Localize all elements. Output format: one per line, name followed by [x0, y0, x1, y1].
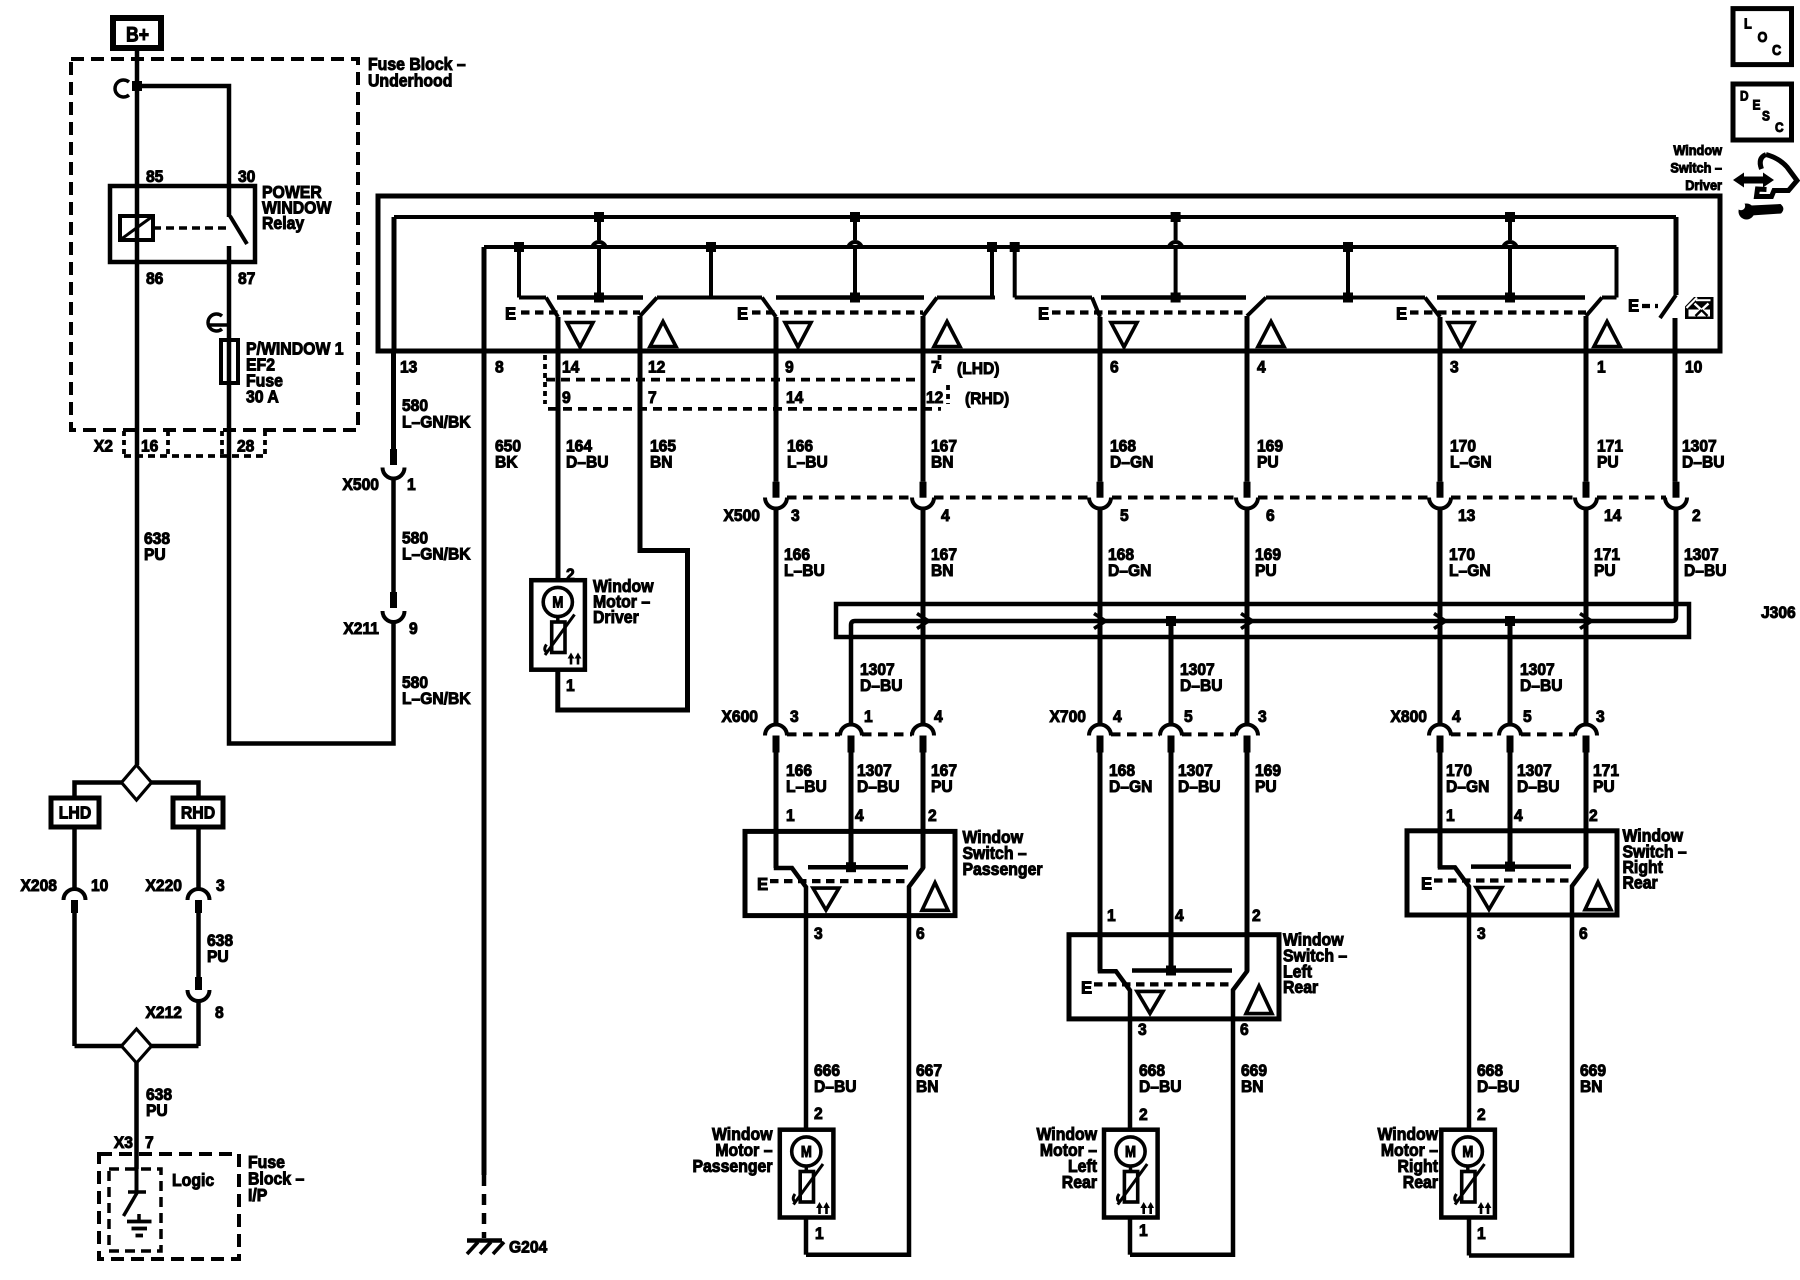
svg-text:D–BU: D–BU [1682, 453, 1725, 472]
svg-text:2: 2 [1589, 807, 1598, 826]
svg-text:L: L [1744, 14, 1752, 31]
connector X500 row dashed line [724, 498, 1666, 526]
svg-text:3: 3 [1477, 925, 1486, 944]
svg-text:3: 3 [814, 925, 823, 944]
svg-text:Passenger: Passenger [692, 1157, 773, 1177]
svg-text:X500: X500 [724, 507, 760, 526]
stub ground bus to unit3 approach [1010, 242, 1020, 298]
svg-text:3: 3 [216, 877, 225, 896]
svg-text:1: 1 [815, 1225, 824, 1244]
wires X800 down into right rear switch [1440, 753, 1598, 869]
connector X212 pin 8 [146, 977, 224, 1022]
wire 638 PU to X3 pin 7 [114, 1063, 172, 1169]
svg-text:O: O [1758, 28, 1768, 45]
svg-text:85: 85 [146, 168, 163, 187]
svg-text:2: 2 [1692, 507, 1701, 526]
fuse P/WINDOW 1 EF2 30 A [221, 339, 344, 407]
svg-text:PU: PU [1593, 778, 1615, 797]
svg-text:2: 2 [928, 807, 937, 826]
label Fuse Block - Underhood [368, 54, 466, 90]
svg-text:Switch –: Switch – [1670, 160, 1722, 176]
wire labels below X600/X700/X800 [786, 762, 1619, 797]
wire 580 L-GN/BK from X2-28 down and over to X211 [229, 456, 394, 744]
svg-text:12: 12 [926, 389, 943, 408]
svg-text:L–GN/BK: L–GN/BK [402, 690, 471, 709]
svg-text:E: E [737, 303, 748, 324]
svg-text:4: 4 [855, 807, 864, 826]
wire labels between X500 and J306 [784, 546, 1727, 581]
wire 580 L-GN/BK X500-1 up to switch pin 13 [394, 351, 471, 449]
svg-text:13: 13 [400, 358, 417, 377]
logic switch to ground [124, 1169, 147, 1216]
driver switch unit 3 (left rear rocker, pins 6/4) [1015, 298, 1425, 352]
splice pack J306 box [836, 604, 1796, 637]
connector X800 pin 5 [1499, 708, 1532, 753]
svg-text:4: 4 [1113, 708, 1122, 727]
svg-text:4: 4 [1452, 708, 1461, 727]
power symbol B+ [113, 18, 161, 48]
svg-text:Logic: Logic [172, 1170, 214, 1190]
wire: relay pin 86 to X2 pin 16 [135, 262, 140, 430]
svg-text:3: 3 [790, 708, 799, 727]
svg-text:Rear: Rear [1403, 1173, 1439, 1193]
svg-text:E: E [1396, 303, 1407, 324]
connector X208 pin 10 [21, 877, 109, 913]
connector X700 pin 4 [1089, 708, 1122, 753]
svg-text:3: 3 [1596, 708, 1605, 727]
wire X212 to split diamond [196, 1001, 201, 1046]
svg-text:D–BU: D–BU [566, 453, 609, 472]
svg-text:PU: PU [1255, 562, 1277, 581]
stub ground bus to unit2 up-bar [987, 242, 997, 298]
connector X500 pin 2 [1665, 482, 1701, 525]
splice pack J306 internal bus [851, 509, 1676, 724]
svg-text:6: 6 [1266, 507, 1275, 526]
wire: B+ down to relay pin 85 [135, 48, 140, 186]
window switch right rear [1407, 826, 1687, 943]
splice diamond LHD/RHD option 1 [122, 765, 152, 800]
connector X700 row [1050, 708, 1236, 735]
wire: junction to relay pin 30 [137, 86, 229, 186]
svg-text:1: 1 [407, 476, 416, 495]
alternate RHD pin row dashed box [545, 355, 1009, 409]
window lockout switch (pin 10) [1628, 217, 1676, 351]
svg-text:7: 7 [145, 1134, 154, 1153]
svg-text:PU: PU [1597, 453, 1619, 472]
window switch left rear [1069, 930, 1347, 1039]
svg-text:2: 2 [1139, 1106, 1148, 1125]
window switch driver enclosure box [378, 196, 1720, 351]
svg-text:C: C [1772, 41, 1781, 58]
stub from supply bus to rocker bar 3 [1169, 212, 1183, 303]
svg-text:9: 9 [562, 389, 571, 408]
svg-text:BN: BN [650, 453, 673, 472]
svg-text:M: M [1462, 1144, 1473, 1161]
svg-text:Driver: Driver [1685, 178, 1722, 194]
wires X600 down into passenger switch [776, 753, 937, 869]
svg-text:86: 86 [146, 270, 163, 289]
svg-text:Underhood: Underhood [368, 71, 452, 91]
svg-text:87: 87 [238, 270, 255, 289]
svg-text:X220: X220 [146, 877, 182, 896]
wire pin 13 inside box [392, 217, 397, 351]
svg-text:D–BU: D–BU [1178, 778, 1221, 797]
wire 667 BN passenger switch to motor pin 1 [806, 916, 942, 1255]
svg-text:10: 10 [91, 877, 108, 896]
fuse block underhood dashed enclosure [71, 59, 358, 430]
connector X700 pin 5 [1160, 708, 1193, 753]
svg-text:1: 1 [1477, 1225, 1486, 1244]
window motor passenger [692, 1125, 833, 1255]
connector X500 pin 6 [1236, 482, 1275, 525]
label Window Switch - Driver [1670, 142, 1722, 193]
fusible link symbol at fuse feed [208, 314, 231, 331]
connector X800 row [1391, 708, 1575, 735]
svg-text:4: 4 [1257, 358, 1266, 377]
svg-text:2: 2 [814, 1105, 823, 1124]
svg-text:BN: BN [931, 453, 954, 472]
svg-text:S: S [1762, 108, 1770, 124]
stub from supply bus to rocker bar 1 [592, 212, 606, 303]
service wrench icon [1737, 202, 1784, 220]
connector X800 pin 4 [1429, 708, 1461, 753]
wire 580 L-GN/BK label below X211 [402, 674, 471, 709]
svg-text:E: E [1038, 303, 1049, 324]
svg-text:(LHD): (LHD) [957, 360, 1000, 379]
wire 668 D-BU left rear switch to motor [1130, 1019, 1182, 1130]
svg-text:7: 7 [648, 389, 657, 408]
svg-text:8: 8 [495, 358, 504, 377]
svg-text:1: 1 [1139, 1222, 1148, 1241]
svg-text:E: E [757, 874, 768, 895]
window motor right rear [1377, 1125, 1494, 1256]
bus: switch ground rail from pin 8 [484, 245, 1617, 249]
relay POWER WINDOW Relay [110, 168, 332, 289]
driver switch unit 2 (passenger window rocker, pins 9/7) [737, 298, 995, 352]
svg-text:X211: X211 [343, 620, 379, 639]
svg-text:L–GN/BK: L–GN/BK [402, 413, 471, 432]
svg-text:3: 3 [791, 507, 800, 526]
svg-text:D–BU: D–BU [860, 677, 903, 696]
connector X600 pin 4 [912, 708, 943, 753]
wire labels under driver switch [495, 437, 1725, 471]
fusible link symbol at B+ feed [115, 80, 129, 97]
wire 638 PU from X2-16 down to LHD/RHD split [137, 456, 170, 765]
svg-text:LHD: LHD [59, 803, 92, 823]
option box RHD [173, 798, 223, 827]
wires driver switch pins down to X500 row [776, 351, 1675, 482]
wire labels 1307 D-BU under J306 [860, 661, 1563, 696]
wire to RHD branch [152, 783, 199, 799]
svg-text:C: C [1775, 119, 1784, 135]
svg-text:6: 6 [1579, 925, 1588, 944]
svg-text:E: E [1421, 873, 1432, 894]
svg-text:10: 10 [1685, 358, 1702, 377]
svg-text:2: 2 [1252, 907, 1261, 926]
driver switch unit 1 (driver window rocker, pins 14/12) [505, 298, 762, 352]
svg-text:PU: PU [146, 1102, 168, 1121]
svg-text:4: 4 [1175, 907, 1184, 926]
svg-text:M: M [552, 595, 563, 612]
svg-text:1: 1 [1107, 907, 1116, 926]
svg-text:M: M [1125, 1144, 1136, 1161]
svg-text:L–BU: L–BU [786, 778, 827, 797]
svg-text:J306: J306 [1761, 604, 1796, 623]
svg-text:Rear: Rear [1623, 873, 1659, 893]
connector X500 pin 3 [765, 482, 800, 525]
svg-text:5: 5 [1184, 708, 1193, 727]
svg-text:G204: G204 [509, 1238, 547, 1257]
J306 tap to X800 pin 5 [1505, 616, 1515, 724]
legend box DESC [1733, 84, 1792, 140]
svg-text:D–GN: D–GN [1110, 453, 1153, 472]
connector X600 pin 1 [840, 708, 873, 753]
svg-text:D–BU: D–BU [814, 1078, 857, 1097]
stub ground bus to unit1 up-bar [706, 242, 716, 298]
J306 tap to X700 pin 5 [1166, 616, 1176, 724]
wire 580 L-GN/BK X211 to X500 pin 1 [394, 478, 471, 592]
svg-text:6: 6 [1110, 358, 1119, 377]
navigation double arrow [1733, 173, 1774, 188]
ground bus right corner down to unit4 up-bar [1615, 247, 1619, 298]
svg-text:14: 14 [562, 358, 579, 377]
svg-text:2: 2 [1477, 1106, 1486, 1125]
svg-text:D–BU: D–BU [857, 778, 900, 797]
wire 669 BN right rear switch to motor pin 1 [1469, 915, 1606, 1256]
svg-text:1: 1 [566, 677, 575, 696]
svg-text:3: 3 [1258, 708, 1267, 727]
svg-text:28: 28 [237, 437, 254, 456]
svg-text:X2: X2 [94, 437, 113, 456]
window motor left rear [1036, 1125, 1157, 1255]
connector X500 pin 4 [912, 482, 950, 525]
svg-text:PU: PU [207, 948, 229, 967]
svg-text:L–GN: L–GN [1450, 453, 1492, 472]
svg-text:BN: BN [916, 1078, 939, 1097]
svg-text:PU: PU [931, 778, 953, 797]
svg-text:I/P: I/P [248, 1185, 267, 1205]
svg-text:(RHD): (RHD) [965, 390, 1009, 409]
connector X700 pin 3 [1236, 708, 1267, 753]
bus: switch supply rail from pin 13 [394, 215, 1676, 219]
wire pin 8 inside box [482, 247, 487, 351]
window lockout icon [1685, 297, 1714, 319]
svg-text:L–GN: L–GN [1449, 562, 1491, 581]
svg-text:8: 8 [215, 1004, 224, 1023]
svg-text:4: 4 [941, 507, 950, 526]
svg-text:Window: Window [1673, 142, 1722, 158]
svg-text:9: 9 [785, 358, 794, 377]
connector X2 pins 16 and 28 [94, 430, 265, 456]
svg-text:D: D [1740, 88, 1749, 104]
wire RHD box to X220 [196, 827, 201, 889]
svg-text:12: 12 [648, 358, 665, 377]
legend box LOC [1733, 9, 1792, 65]
svg-text:D–BU: D–BU [1520, 677, 1563, 696]
svg-text:BN: BN [931, 562, 954, 581]
svg-text:D–GN: D–GN [1446, 778, 1489, 797]
svg-text:D–GN: D–GN [1108, 562, 1151, 581]
wire 650 BK pin 8 to G204 [482, 351, 487, 1175]
svg-text:L–GN/BK: L–GN/BK [402, 545, 471, 564]
connector X500 pin 13 [1429, 482, 1475, 525]
svg-text:BN: BN [1241, 1078, 1264, 1097]
navigation hand icon [1757, 155, 1798, 197]
wires X700 down into left rear switch [1100, 753, 1261, 972]
svg-text:D–BU: D–BU [1139, 1078, 1182, 1097]
svg-text:1: 1 [786, 807, 795, 826]
svg-text:30: 30 [238, 168, 255, 187]
svg-text:X800: X800 [1391, 708, 1427, 727]
svg-text:5: 5 [1120, 507, 1129, 526]
connector X500 pin 5 [1089, 482, 1129, 525]
svg-text:L–BU: L–BU [787, 453, 828, 472]
svg-text:E: E [1628, 295, 1639, 316]
connector X211 pin 9 [343, 592, 417, 638]
svg-text:X500: X500 [343, 476, 379, 495]
window switch passenger [745, 827, 1043, 943]
driver switch pin numbers (LHD row) [400, 358, 1702, 378]
wire 666 D-BU passenger switch to motor [806, 916, 857, 1130]
svg-text:14: 14 [786, 389, 803, 408]
svg-text:X3: X3 [114, 1134, 133, 1153]
svg-text:D–BU: D–BU [1477, 1078, 1520, 1097]
svg-text:E: E [1081, 977, 1092, 998]
connector X800 pin 3 [1575, 708, 1605, 753]
fuse block I/P dashed enclosure [99, 1152, 304, 1259]
svg-text:BK: BK [495, 453, 518, 472]
svg-text:30 A: 30 A [246, 387, 279, 407]
svg-text:4: 4 [934, 708, 943, 727]
splice diamond LHD/RHD option 2 [75, 1029, 199, 1063]
svg-text:BN: BN [1580, 1078, 1603, 1097]
wire 164 D-BU pin 14 to driver motor [556, 351, 561, 580]
connector X600 pin 3 [765, 708, 799, 753]
stub from supply bus to rocker bar 4 [1503, 212, 1517, 303]
svg-text:PU: PU [1594, 562, 1616, 581]
wire LHD box to X208 [72, 827, 77, 889]
svg-text:3: 3 [1450, 358, 1459, 377]
svg-text:3: 3 [1138, 1021, 1147, 1040]
svg-text:X700: X700 [1050, 708, 1086, 727]
svg-text:E: E [505, 303, 516, 324]
wires through J306 down to lower connector row [776, 509, 1676, 724]
driver switch unit 4 (right rear rocker, pins 3/1) [1396, 298, 1620, 352]
option box LHD [51, 798, 99, 827]
svg-text:Driver: Driver [593, 608, 639, 628]
wire X208 to split diamond [72, 913, 77, 1046]
node: B+ feed junction [132, 81, 142, 91]
wire 638 PU from X220 to X212 [199, 913, 234, 977]
svg-text:X208: X208 [21, 877, 57, 896]
svg-text:13: 13 [1458, 507, 1475, 526]
svg-text:D–BU: D–BU [1180, 677, 1223, 696]
svg-text:Passenger: Passenger [963, 859, 1044, 879]
svg-text:4: 4 [1514, 807, 1523, 826]
svg-text:Relay: Relay [262, 213, 305, 233]
svg-text:D–GN: D–GN [1109, 778, 1152, 797]
svg-text:Rear: Rear [1062, 1173, 1098, 1193]
svg-text:X600: X600 [722, 708, 758, 727]
stub ground bus to unit1 approach [514, 242, 524, 298]
wire to LHD branch [75, 783, 122, 799]
svg-text:Rear: Rear [1283, 978, 1319, 998]
svg-text:PU: PU [1255, 778, 1277, 797]
stub from supply bus to rocker bar 2 [848, 212, 862, 303]
stub ground bus to unit4 approach [1343, 242, 1353, 303]
svg-text:16: 16 [141, 437, 158, 456]
J306 chevrons at wire crossings [917, 614, 1592, 629]
svg-text:D–BU: D–BU [1684, 562, 1727, 581]
wire 669 BN left rear switch to motor pin 1 [1130, 1019, 1267, 1255]
connector X500 pin 1 [343, 449, 416, 494]
svg-text:B+: B+ [126, 23, 149, 47]
svg-text:1: 1 [1597, 358, 1606, 377]
svg-text:D–BU: D–BU [1517, 778, 1560, 797]
svg-text:14: 14 [1604, 507, 1621, 526]
ground symbol inside logic [127, 1214, 152, 1236]
wire 165 BN pin 12 looping to driver motor pin 1 [558, 351, 688, 710]
wire: fuse to X2 pin 28 [227, 383, 232, 430]
svg-text:PU: PU [1257, 453, 1279, 472]
svg-text:6: 6 [916, 925, 925, 944]
svg-text:PU: PU [144, 546, 166, 565]
svg-text:6: 6 [1240, 1021, 1249, 1040]
logic module dashed box [109, 1169, 214, 1251]
svg-text:1: 1 [864, 708, 873, 727]
connector X220 pin 3 [146, 877, 225, 913]
svg-text:RHD: RHD [181, 803, 215, 823]
svg-text:1: 1 [1446, 807, 1455, 826]
connector X500 pin 14 [1575, 482, 1621, 525]
svg-text:9: 9 [409, 620, 418, 639]
connector X600 row [722, 708, 912, 735]
svg-text:5: 5 [1523, 708, 1532, 727]
wire 668 D-BU right rear switch to motor [1469, 915, 1520, 1130]
wire: relay pin 87 to fuse [227, 262, 232, 340]
svg-text:E: E [1753, 97, 1761, 113]
svg-text:X212: X212 [146, 1004, 182, 1023]
svg-text:M: M [801, 1144, 812, 1161]
window motor driver [531, 566, 653, 696]
svg-text:L–BU: L–BU [784, 562, 825, 581]
ground G204 [467, 1175, 547, 1257]
